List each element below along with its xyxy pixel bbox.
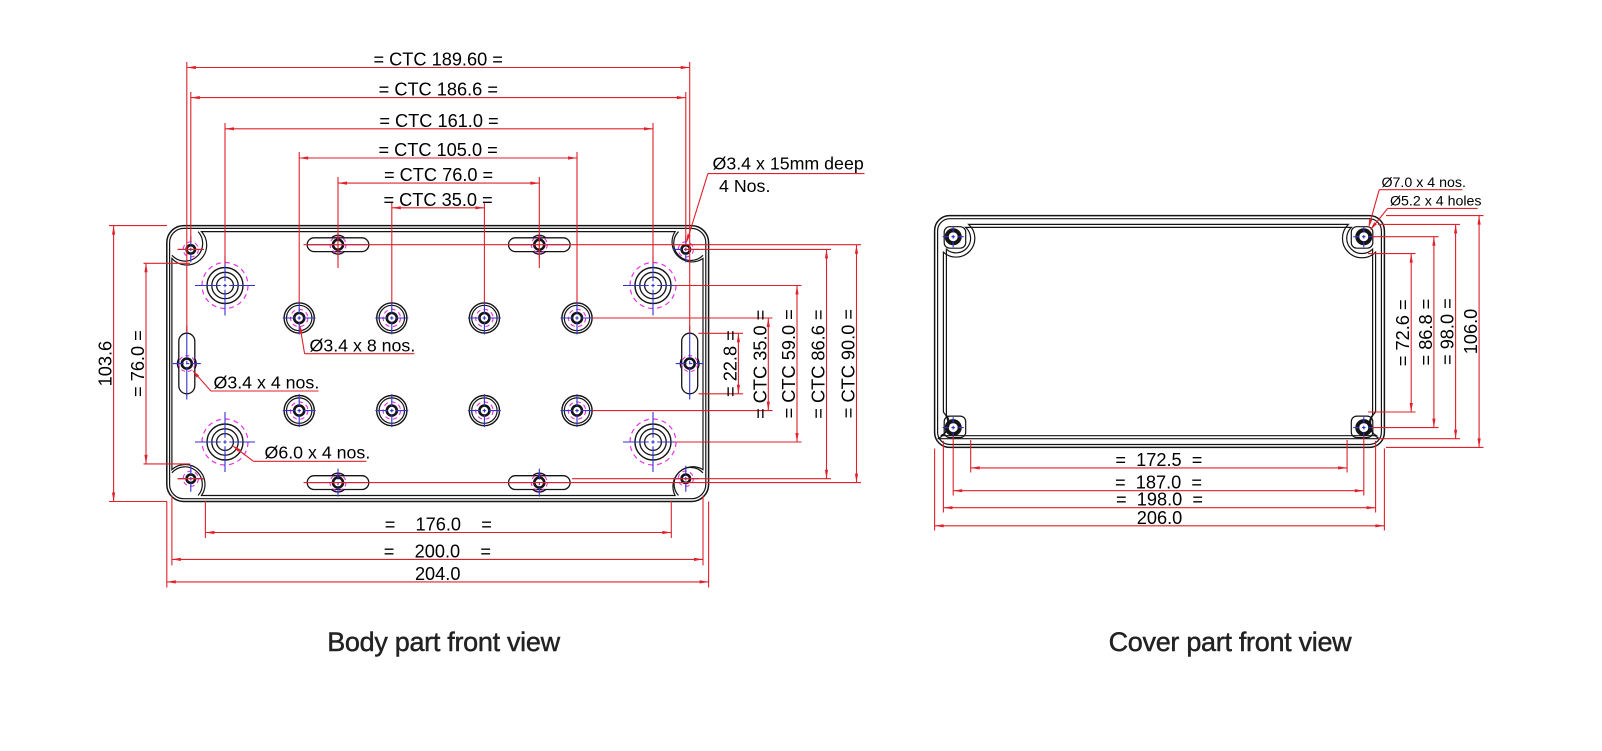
- body mounting hole r2c1 (O3.4): [283, 394, 316, 427]
- body O6 boss BL: [195, 412, 255, 472]
- ext lines CTC 161.0 (bosses): [225, 123, 653, 264]
- ext line right slot top: [699, 332, 744, 334]
- cover screw TL (O7/O5.2): [943, 226, 964, 247]
- cover screw BR (O7/O5.2): [1353, 417, 1374, 438]
- body corner boss inner arc TR: [674, 232, 703, 261]
- ext line right slot bottom: [699, 393, 744, 395]
- dim CTC 189.60: [187, 50, 690, 70]
- dim 206.0: [935, 508, 1385, 528]
- svg-text:Ø6.0 x 4 nos.: Ø6.0 x 4 nos.: [265, 443, 371, 463]
- body corner boss inner arc TL: [172, 232, 203, 262]
- ext lines 72.6: [1368, 254, 1416, 412]
- body mounting hole r1c4 (O3.4): [561, 302, 594, 335]
- ext line top corner holes to right dims: [684, 248, 831, 250]
- ext lines 200.0: [172, 496, 703, 566]
- body mounting hole r1c3 (O3.4): [468, 302, 501, 335]
- body bottom slot 1: [307, 469, 369, 497]
- svg-text:= 22.8 =: = 22.8 =: [720, 330, 740, 397]
- body mounting hole r1c1 (O3.4): [283, 302, 316, 335]
- ext lines 204.0: [167, 502, 709, 588]
- svg-text:= CTC 35.0 =: = CTC 35.0 =: [384, 190, 493, 210]
- dim 187.0: [953, 473, 1364, 493]
- svg-text:Cover part front view: Cover part front view: [1109, 627, 1353, 657]
- dim 198.0: [943, 490, 1375, 510]
- body mounting hole r2c3 (O3.4): [468, 394, 501, 427]
- ext lines 103.6 (outer height): [109, 226, 167, 502]
- label O3.4 x 15mm deep 4 Nos.: [686, 153, 864, 243]
- svg-text:= 86.8 =: = 86.8 =: [1416, 299, 1436, 366]
- body lip line: [170, 228, 706, 498]
- body mounting hole r2c2 (O3.4): [375, 394, 408, 427]
- ext lines CTC 76.0 (top slots): [338, 177, 539, 268]
- dim 176.0: [205, 515, 671, 535]
- body mounting hole r2c4 (O3.4): [561, 394, 594, 427]
- svg-text:= 200.0 =: = 200.0 =: [384, 541, 491, 561]
- svg-text:= CTC 186.6 =: = CTC 186.6 =: [379, 80, 498, 100]
- ext line bottom corner holes to right dims: [572, 478, 831, 480]
- cover recessed panel outer line: [938, 224, 1380, 438]
- svg-text:= 98.0 =: = 98.0 =: [1438, 298, 1458, 365]
- title body view: [327, 627, 560, 657]
- dim CTC 86.6: [809, 249, 829, 478]
- dim 98.0: [1438, 224, 1458, 438]
- ext line TL corner hole centreline: [178, 248, 205, 250]
- dim 204.0: [167, 564, 709, 584]
- label O3.4 x 4 nos.: [192, 370, 319, 393]
- svg-text:4 Nos.: 4 Nos.: [719, 176, 770, 196]
- ext lines 198.0 (panel): [943, 441, 1375, 513]
- body O6 boss TR: [623, 256, 683, 316]
- cover screw BL (O7/O5.2): [943, 417, 964, 438]
- dim CTC 90.0: [839, 245, 859, 483]
- ext lines CTC 105.0 (hole cols 1,4): [299, 152, 577, 303]
- ext lines CTC 35.0 (hole cols 2,3): [392, 202, 485, 303]
- body corner boss inner arc BR: [674, 467, 703, 495]
- body left side slot: [173, 326, 201, 402]
- dim CTC 35.0: [384, 190, 493, 210]
- dim 172.5: [971, 450, 1347, 470]
- body corner screw hole BL (O3.4x15): [178, 466, 204, 492]
- ext lines 187.0 (screws): [953, 436, 1364, 496]
- dim CTC 161.0: [225, 111, 653, 131]
- svg-text:Ø5.2 x 4 holes: Ø5.2 x 4 holes: [1390, 194, 1482, 210]
- cover screw post TL: [944, 227, 966, 249]
- ext lines 76.0 (boss arc extents): [144, 263, 191, 464]
- svg-text:= 172.5 =: = 172.5 =: [1115, 450, 1202, 470]
- body O6 boss BR: [623, 412, 683, 472]
- svg-text:= CTC 59.0 =: = CTC 59.0 =: [779, 309, 799, 418]
- dim CTC 76.0: [338, 165, 539, 185]
- cover recessed panel inner line: [941, 227, 1377, 435]
- body bottom slot 2: [508, 469, 570, 497]
- svg-text:= 72.6 =: = 72.6 =: [1393, 299, 1413, 366]
- dim 86.8: [1416, 237, 1436, 428]
- svg-text:= CTC 86.6 =: = CTC 86.6 =: [809, 310, 829, 419]
- dim 22.8: [720, 330, 740, 397]
- label O6.0 x 4 nos.: [232, 443, 370, 463]
- ext lines 86.8 (screws): [1372, 237, 1439, 428]
- dim CTC 59.0: [779, 286, 799, 443]
- cover outer outline: [935, 216, 1385, 448]
- ext lines 98.0 (panel): [1378, 224, 1460, 438]
- ext lines CTC 186.6 (corner holes): [191, 92, 686, 243]
- ext line BL corner hole centreline: [178, 478, 205, 480]
- body outer outline: [167, 226, 709, 502]
- body right side slot: [676, 326, 704, 402]
- ext line row2 to right dims: [593, 410, 773, 412]
- svg-text:Body part front view: Body part front view: [327, 627, 560, 657]
- cover screw post BR: [1351, 416, 1373, 438]
- body mounting hole r1c2 (O3.4): [375, 302, 408, 335]
- body inner wall with corner boss arcs: [172, 232, 703, 496]
- body top slot 2: [508, 231, 570, 259]
- ext lines 172.5: [971, 440, 1347, 473]
- body corner screw hole BR (O3.4x15): [673, 466, 699, 492]
- svg-text:Ø3.4 x 8 nos.: Ø3.4 x 8 nos.: [310, 336, 416, 356]
- ext line row1 to right dims: [593, 317, 773, 319]
- svg-text:= CTC 105.0 =: = CTC 105.0 =: [378, 140, 497, 160]
- svg-text:= 198.0 =: = 198.0 =: [1116, 490, 1203, 510]
- cover screw post BL: [944, 416, 966, 438]
- label O7.0 x 4 nos.: [1369, 175, 1466, 228]
- dim 200.0: [172, 541, 703, 561]
- body corner screw hole TL (O3.4x15): [178, 236, 204, 262]
- svg-text:= CTC 90.0 =: = CTC 90.0 =: [839, 309, 859, 418]
- body top slot 1: [307, 231, 369, 259]
- dim CTC 35.0 vertical: [750, 310, 770, 419]
- dim 76.0: [128, 263, 148, 464]
- dim 103.6: [96, 226, 116, 502]
- body corner screw hole TR (O3.4x15): [673, 236, 699, 262]
- svg-text:206.0: 206.0: [1137, 508, 1183, 528]
- svg-text:= 176.0 =: = 176.0 =: [385, 515, 492, 535]
- cover screw TR (O7/O5.2): [1353, 226, 1374, 247]
- ext line top bosses to right dims: [675, 285, 802, 287]
- ext lines CTC 189.60 (side slot centres): [187, 62, 690, 333]
- svg-text:= CTC 35.0 =: = CTC 35.0 =: [750, 310, 770, 419]
- ext lines 206.0 (outer): [935, 449, 1385, 531]
- dim 106.0: [1461, 216, 1481, 448]
- svg-text:103.6: 103.6: [96, 341, 116, 387]
- dim CTC 186.6: [191, 80, 686, 100]
- ext line top slot centres to right dims: [304, 244, 862, 246]
- ext line bottom slot centres to right dims: [304, 482, 862, 484]
- cover lip line: [938, 219, 1382, 445]
- svg-text:106.0: 106.0: [1461, 309, 1481, 355]
- body O6 boss TL: [195, 256, 255, 316]
- svg-text:204.0: 204.0: [415, 564, 461, 584]
- ext lines 176.0: [205, 501, 671, 538]
- svg-text:= CTC 161.0 =: = CTC 161.0 =: [379, 111, 498, 131]
- svg-text:= CTC 189.60 =: = CTC 189.60 =: [373, 50, 502, 70]
- svg-text:Ø3.4 x 4 nos.: Ø3.4 x 4 nos.: [214, 373, 320, 393]
- body corner boss inner arc BL: [172, 467, 202, 496]
- label O3.4 x 8 nos.: [300, 325, 416, 356]
- ext line bottom bosses to right dims: [675, 441, 802, 443]
- svg-text:Ø3.4 x 15mm deep: Ø3.4 x 15mm deep: [713, 153, 864, 173]
- dim 72.6: [1393, 254, 1413, 412]
- dim CTC 105.0: [299, 140, 577, 160]
- svg-text:Ø7.0 x 4 nos.: Ø7.0 x 4 nos.: [1382, 175, 1466, 191]
- title cover view: [1109, 627, 1353, 657]
- ext lines 106.0 (outer): [1386, 216, 1484, 448]
- svg-text:= 76.0 =: = 76.0 =: [128, 330, 148, 397]
- cover screw post TR: [1351, 227, 1373, 249]
- label O5.2 x 4 holes: [1370, 194, 1482, 231]
- svg-text:= CTC 76.0 =: = CTC 76.0 =: [384, 165, 493, 185]
